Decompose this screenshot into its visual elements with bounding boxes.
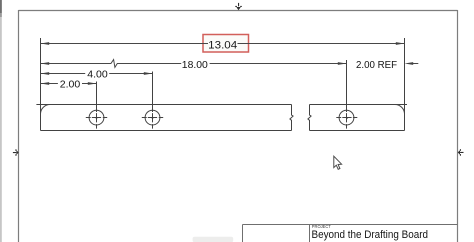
svg-text:2.00: 2.00	[60, 80, 81, 91]
svg-text:2.00 REF: 2.00 REF	[356, 60, 397, 71]
svg-text:13.04: 13.04	[208, 39, 237, 51]
svg-text:Beyond the Drafting Board: Beyond the Drafting Board	[312, 229, 429, 241]
svg-text:4.00: 4.00	[87, 70, 108, 81]
svg-text:18.00: 18.00	[182, 60, 208, 71]
